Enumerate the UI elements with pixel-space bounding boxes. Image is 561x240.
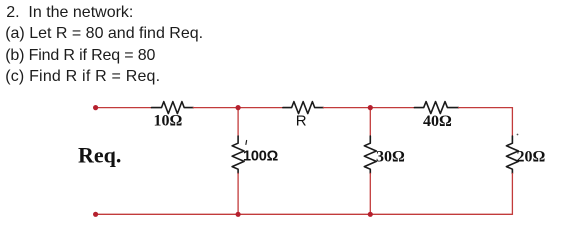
node terminal dot bottom-left — [93, 212, 98, 217]
wire bottom rail (red) — [96, 213, 513, 215]
svg-text:20Ω: 20Ω — [517, 149, 546, 166]
resistor R1 10ohm (zigzag with leads) — [152, 102, 194, 114]
problem statement line 4 — [5, 68, 160, 86]
svg-text:R: R — [296, 113, 307, 130]
svg-text:Req.: Req. — [78, 142, 121, 167]
stray dot near 20ohm top — [517, 134, 519, 136]
problem statement line 1 — [6, 4, 133, 22]
svg-text:100Ω: 100Ω — [243, 148, 279, 164]
problem statement line 3 — [5, 47, 155, 65]
svg-text:30Ω: 30Ω — [376, 149, 405, 166]
resistor R5 20ohm vertical (zigzag with leads) — [506, 136, 518, 173]
wire top rail segment from left terminal to 10ohm resistor — [96, 107, 152, 109]
node B junction dot top — [368, 105, 373, 110]
wire vertical branch node A top lead (red) — [237, 108, 239, 136]
svg-text:10Ω: 10Ω — [154, 113, 183, 130]
resistor R (zigzag with leads) — [283, 102, 324, 114]
stray tick mark near 100ohm top — [245, 141, 248, 145]
resistor R2 40ohm (zigzag with leads) — [414, 102, 458, 114]
problem statement line 2 — [5, 25, 203, 43]
wire vertical branch node B bottom lead (red) — [369, 173, 371, 214]
node terminal dot top-left — [93, 105, 98, 110]
resistor R4 30ohm vertical (zigzag with leads) — [364, 136, 376, 173]
svg-text:40Ω: 40Ω — [423, 113, 452, 130]
wire vertical branch node A bottom lead (red) — [237, 173, 239, 214]
wire top rail segment from 10ohm to node A — [193, 107, 283, 109]
wire right edge bottom segment (red) — [511, 173, 513, 214]
wire top rail segment from 40ohm to top-right corner — [459, 107, 513, 109]
node B junction dot bottom — [368, 212, 373, 217]
wire right edge top segment (red) — [511, 108, 513, 136]
resistor R3 100ohm vertical (zigzag with leads) — [232, 136, 244, 173]
wire top rail segment from R to node B — [323, 107, 414, 109]
node A junction dot bottom — [236, 212, 241, 217]
wire vertical branch node B top lead (red) — [369, 108, 371, 136]
node A junction dot top — [236, 105, 241, 110]
